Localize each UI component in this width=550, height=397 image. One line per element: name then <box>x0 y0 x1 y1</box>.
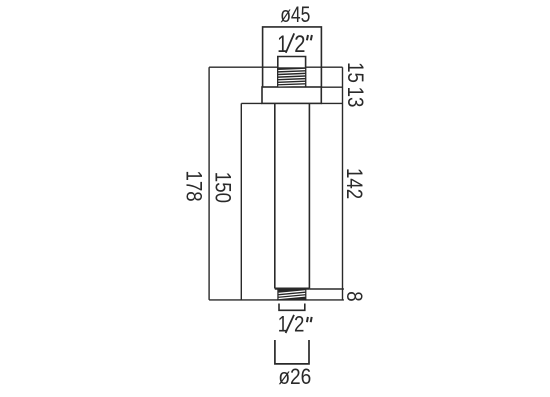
svg-text:150: 150 <box>210 172 234 203</box>
svg-text:178: 178 <box>181 171 205 202</box>
svg-text:1: 1 <box>278 313 288 337</box>
svg-text:2: 2 <box>294 313 304 337</box>
svg-text:1: 1 <box>277 30 288 58</box>
svg-text:2: 2 <box>294 30 305 57</box>
svg-text:13: 13 <box>343 87 367 108</box>
svg-text:ø26: ø26 <box>278 365 311 390</box>
svg-text:142: 142 <box>341 168 365 199</box>
svg-text:8: 8 <box>342 291 366 301</box>
svg-text:ø45: ø45 <box>280 3 310 28</box>
svg-text:15: 15 <box>343 62 367 83</box>
